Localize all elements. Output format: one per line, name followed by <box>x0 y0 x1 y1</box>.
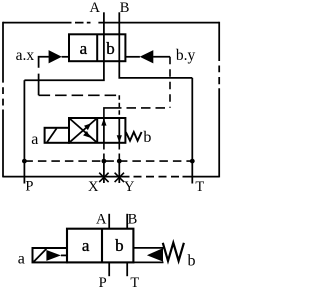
wire port B stub <box>126 214 128 229</box>
pilot line 2 (dashed) <box>112 107 170 109</box>
pilot channel top rail <box>133 247 163 249</box>
svg-text:A: A <box>90 0 101 16</box>
svg-text:b.y: b.y <box>176 47 196 64</box>
svg-text:B: B <box>128 211 138 227</box>
pilot line b.y drop (dashed) <box>169 57 171 108</box>
wire a.x to valve <box>62 56 69 58</box>
main valve crossed-flow diagonal 2 <box>69 118 97 143</box>
svg-text:a.x: a.x <box>16 47 35 64</box>
svg-text:a: a <box>18 250 25 267</box>
drain Y drop (dashed) <box>118 144 120 160</box>
svg-text:P: P <box>99 275 107 289</box>
main valve V1 body <box>69 118 125 143</box>
svg-text:Y: Y <box>124 179 135 195</box>
svg-text:A: A <box>96 211 107 227</box>
wire b.y <box>153 56 170 58</box>
wire Y to port <box>118 161 120 183</box>
enclosure frame left edge <box>2 22 4 178</box>
simplified valve body <box>67 229 133 263</box>
solenoid pilot triangle <box>46 250 61 261</box>
main valve straight-flow up arrow <box>103 119 105 143</box>
spring of simplified valve <box>163 243 184 261</box>
svg-text:b: b <box>106 39 115 58</box>
svg-text:b: b <box>188 252 196 269</box>
svg-text:a: a <box>31 131 38 148</box>
wire port T stub <box>126 262 128 276</box>
pilot line 1 from a.x (dashed) <box>39 94 120 96</box>
wire port A stub <box>108 214 110 229</box>
pilot valve divider <box>96 34 98 61</box>
wire B line <box>118 12 120 34</box>
solenoid diagonal <box>34 249 47 262</box>
junction dot Y <box>117 159 122 164</box>
svg-text:a: a <box>80 39 88 58</box>
enclosure frame top edge <box>3 22 219 24</box>
pilot valve pass line B <box>118 34 120 61</box>
spring b of main valve <box>126 132 142 141</box>
drain X drop (dashed) <box>103 144 105 160</box>
wire b.y from valve <box>125 56 139 58</box>
main valve divider <box>96 118 98 143</box>
solenoid pilot arrow b.y <box>140 50 154 63</box>
crossed-flow arrowhead NE <box>84 123 91 130</box>
simplified valve divider <box>101 229 103 263</box>
wire port P stub <box>108 262 110 276</box>
pilot valve pass line A <box>103 34 105 61</box>
solenoid box of simplified valve <box>33 248 68 262</box>
wire A line <box>103 12 105 34</box>
pilot channel bottom rail <box>133 261 163 263</box>
wire X to port <box>103 161 105 183</box>
junction dot T <box>190 159 195 164</box>
svg-text:T: T <box>195 179 204 195</box>
crossed-flow arrowhead SE <box>83 131 90 138</box>
pilot line 2 corner <box>104 108 112 118</box>
svg-text:a: a <box>82 236 90 255</box>
svg-text:X: X <box>88 179 99 195</box>
svg-text:b: b <box>115 236 124 255</box>
drain gallery line (dashed) <box>24 160 192 162</box>
wire P branch to pilot <box>24 61 104 80</box>
plugged port Y star <box>115 173 124 182</box>
pilot valve U1 body <box>69 34 125 61</box>
pilot triangle (left pointing) <box>147 248 163 262</box>
plugged port X star <box>99 173 108 182</box>
svg-text:T: T <box>130 275 139 289</box>
wire P riser <box>23 80 25 183</box>
solenoid a of main valve <box>45 128 69 143</box>
pilot line 1 drop (dashed) <box>118 95 120 118</box>
svg-text:b: b <box>143 129 151 146</box>
enclosure frame bottom edge <box>3 176 219 178</box>
wire a.x <box>39 57 49 96</box>
wire T drop <box>191 78 193 184</box>
solenoid pilot arrow a.x <box>49 50 62 63</box>
enclosure frame right edge <box>218 22 220 178</box>
wire T branch from pilot <box>119 61 192 78</box>
junction dot P <box>22 159 27 164</box>
svg-text:B: B <box>120 0 130 16</box>
junction dot X <box>102 159 107 164</box>
main valve straight-flow down arrow <box>118 118 120 142</box>
svg-text:P: P <box>25 179 33 195</box>
main valve crossed-flow diagonal 1 <box>69 118 97 143</box>
